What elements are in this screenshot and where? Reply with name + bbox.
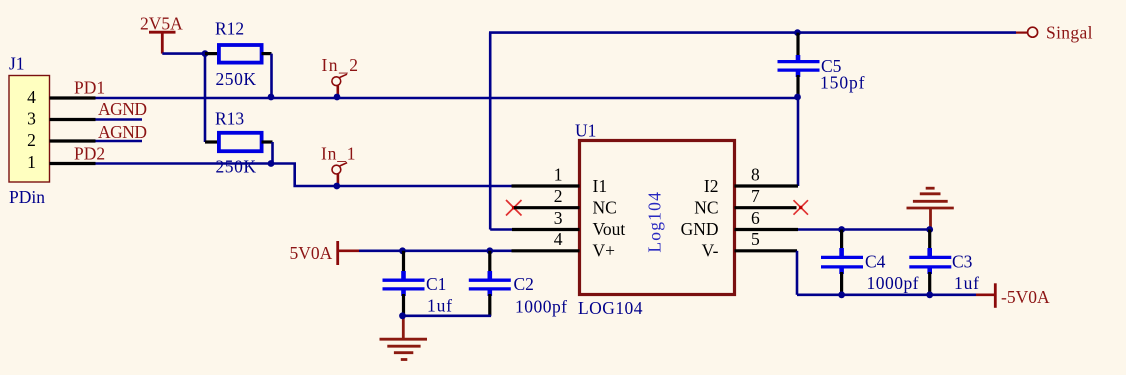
svg-text:V-: V- [702, 241, 719, 261]
svg-text:4: 4 [27, 87, 36, 107]
svg-text:2: 2 [27, 130, 36, 150]
svg-text:150pf: 150pf [820, 73, 865, 93]
svg-text:6: 6 [751, 208, 760, 228]
svg-text:NC: NC [694, 197, 718, 217]
wire 2V5A to R12 [162, 52, 207, 55]
svg-text:PD1: PD1 [74, 78, 105, 98]
U1 pin 8 stub (I2) [735, 184, 799, 187]
svg-text:GND: GND [681, 219, 719, 239]
svg-text:C4: C4 [865, 251, 886, 271]
port Singal [1016, 23, 1093, 43]
svg-text:3: 3 [554, 208, 563, 228]
svg-text:U1: U1 [575, 121, 596, 141]
svg-text:In_2: In_2 [322, 55, 359, 75]
svg-text:J1: J1 [9, 54, 25, 74]
J1 pin 4 stub [50, 96, 96, 99]
wire AGND pin3 [96, 118, 143, 121]
svg-text:PD2: PD2 [74, 144, 105, 164]
U1 pin 3 stub (Vout) [512, 228, 580, 231]
wire PD2 net horizontal [96, 162, 297, 165]
no-connect X pin 7 [794, 200, 809, 215]
svg-text:R13: R13 [215, 109, 244, 129]
power 5V0A [290, 241, 360, 265]
capacitor C4 [821, 230, 863, 295]
wire R13 to PD2 [271, 142, 274, 164]
resistor R12 [205, 45, 272, 63]
junction top wire / C5 [794, 29, 801, 36]
testpoint In_2 [322, 55, 359, 95]
testpoint In_1 [321, 144, 356, 184]
junction In_2/PD1 [334, 94, 341, 101]
svg-text:5: 5 [751, 229, 760, 249]
svg-text:1: 1 [554, 165, 563, 185]
junction C5/PD1/I2 [794, 94, 801, 101]
U1 pin 4 stub (V+) [512, 249, 580, 252]
svg-text:1uf: 1uf [427, 295, 452, 315]
svg-text:AGND: AGND [98, 99, 147, 119]
svg-text:Log104: Log104 [645, 192, 665, 253]
svg-text:-5V0A: -5V0A [1001, 287, 1050, 307]
svg-text:1uf: 1uf [954, 273, 979, 293]
U1 pin 7 stub (NC) [735, 206, 797, 209]
svg-text:1000pf: 1000pf [515, 297, 567, 317]
svg-text:AGND: AGND [98, 122, 147, 142]
svg-text:NC: NC [593, 197, 617, 217]
no-connect X pin 2 [506, 200, 522, 216]
svg-text:250K: 250K [216, 69, 257, 89]
wire PD2 step down [295, 164, 512, 187]
svg-text:1: 1 [27, 152, 36, 172]
svg-text:8: 8 [751, 165, 760, 185]
ground (below C1) [380, 316, 428, 360]
svg-text:PDin: PDin [9, 187, 45, 207]
svg-text:C2: C2 [514, 274, 534, 294]
J1 pin 1 stub [50, 162, 96, 165]
svg-text:4: 4 [554, 229, 563, 249]
power 2V5A [140, 14, 183, 54]
capacitor C5 [778, 33, 820, 98]
wire down to R13 [204, 54, 207, 142]
capacitor C2 [469, 251, 511, 316]
capacitor C3 [909, 230, 951, 295]
wire top (Vout to Singal) [489, 31, 1016, 34]
junction C1/ground [399, 312, 406, 319]
junction R13/PD2 [268, 160, 275, 167]
power -5V0A [976, 283, 1050, 308]
svg-text:Singal: Singal [1046, 23, 1093, 43]
J1 pin 3 stub [50, 118, 96, 121]
junction GND/C4 [838, 226, 845, 233]
junction In_1/PD2 [333, 183, 340, 190]
svg-text:R12: R12 [215, 19, 244, 39]
wire AGND pin2 [96, 140, 143, 143]
wire Vout vertical [489, 33, 492, 230]
svg-text:V+: V+ [593, 241, 616, 261]
IC U1 [575, 121, 735, 319]
svg-text:7: 7 [751, 186, 760, 206]
wire GND net (pin 6) [798, 228, 930, 231]
svg-text:5V0A: 5V0A [290, 243, 333, 263]
svg-text:3: 3 [27, 109, 36, 129]
wire PD1 net [96, 97, 799, 100]
J1 pin 2 stub [50, 139, 96, 142]
junction V-/C3 [926, 291, 933, 298]
junction GND/C3/ground [926, 226, 933, 233]
connector J1 [9, 54, 50, 208]
junction at 2V5A/R12/R13 [202, 50, 209, 57]
junction V+/C1 [399, 247, 406, 254]
wire V- vertical [796, 251, 799, 295]
capacitor C1 [383, 251, 425, 316]
junction V+/C2 [486, 247, 493, 254]
svg-text:I2: I2 [704, 176, 719, 196]
svg-text:1000pf: 1000pf [867, 273, 919, 293]
wire I2 vertical [797, 98, 800, 186]
junction V-/C4 [838, 291, 845, 298]
wire V- bottom [797, 293, 976, 296]
svg-text:I1: I1 [593, 176, 608, 196]
svg-text:C1: C1 [426, 274, 446, 294]
svg-text:2V5A: 2V5A [140, 14, 183, 34]
svg-text:250K: 250K [216, 157, 257, 177]
wire R12 to PD1 [270, 54, 273, 98]
U1 pin 1 stub (I1) [512, 184, 580, 187]
wire V+ net [359, 250, 512, 253]
svg-text:In_1: In_1 [321, 144, 356, 164]
wire C1-C2 bottom [403, 314, 492, 317]
U1 pin 2 stub (NC) [514, 206, 580, 209]
svg-text:2: 2 [554, 186, 563, 206]
resistor R13 [205, 133, 273, 151]
junction R12/PD1 [268, 94, 275, 101]
svg-text:Vout: Vout [593, 219, 626, 239]
U1 pin 5 stub (V-) [735, 249, 798, 252]
svg-text:C3: C3 [952, 251, 973, 271]
svg-text:LOG104: LOG104 [578, 298, 643, 318]
U1 pin 6 stub (GND) [735, 228, 799, 231]
wire Vout to pin3 [490, 228, 512, 231]
ground (above C3, inverted) [907, 188, 954, 229]
